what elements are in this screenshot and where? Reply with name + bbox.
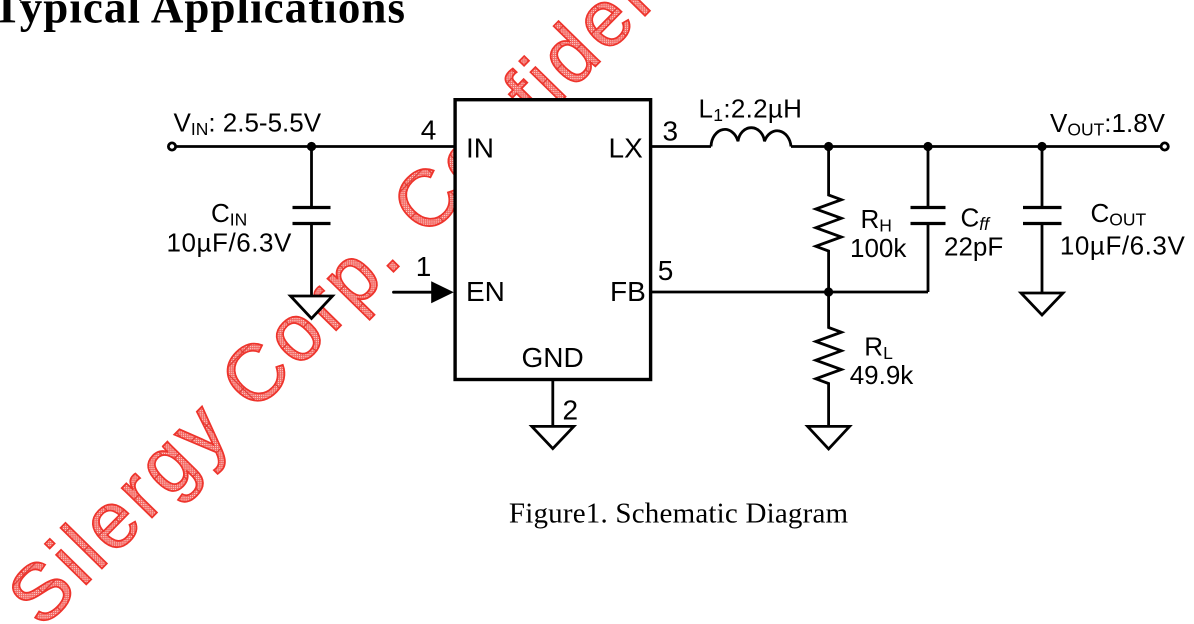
svg-text:10µF/6.3V: 10µF/6.3V [1060, 231, 1186, 261]
svg-text:VOUT:1.8V: VOUT:1.8V [1050, 108, 1166, 140]
svg-text:FB: FB [610, 276, 646, 307]
svg-text:49.9k: 49.9k [850, 360, 915, 390]
svg-text:1: 1 [416, 251, 432, 282]
svg-text:2: 2 [563, 395, 579, 426]
svg-text:Silergy Corp. Confidential: Silergy Corp. Confidential [0, 0, 772, 624]
svg-text:LX: LX [609, 132, 644, 163]
svg-text:IN: IN [466, 132, 494, 163]
svg-text:Cff: Cff [961, 203, 992, 235]
svg-text:Figure1. Schematic Diagram: Figure1. Schematic Diagram [509, 498, 849, 530]
svg-text:EN: EN [466, 276, 505, 307]
svg-text:VIN: 2.5-5.5V: VIN: 2.5-5.5V [174, 107, 322, 139]
svg-text:RL: RL [864, 331, 893, 363]
svg-text:5: 5 [658, 255, 674, 286]
svg-text:Typical Applications: Typical Applications [0, 0, 406, 32]
svg-text:COUT: COUT [1091, 198, 1147, 230]
svg-text:CIN: CIN [211, 198, 247, 230]
svg-text:10µF/6.3V: 10µF/6.3V [167, 228, 293, 258]
svg-text:3: 3 [663, 116, 679, 147]
svg-text:4: 4 [421, 114, 437, 145]
svg-text:GND: GND [522, 342, 584, 373]
svg-text:RH: RH [861, 204, 892, 236]
svg-text:22pF: 22pF [944, 232, 1003, 262]
svg-text:100k: 100k [850, 233, 907, 263]
svg-text:L1:2.2µH: L1:2.2µH [699, 94, 803, 126]
